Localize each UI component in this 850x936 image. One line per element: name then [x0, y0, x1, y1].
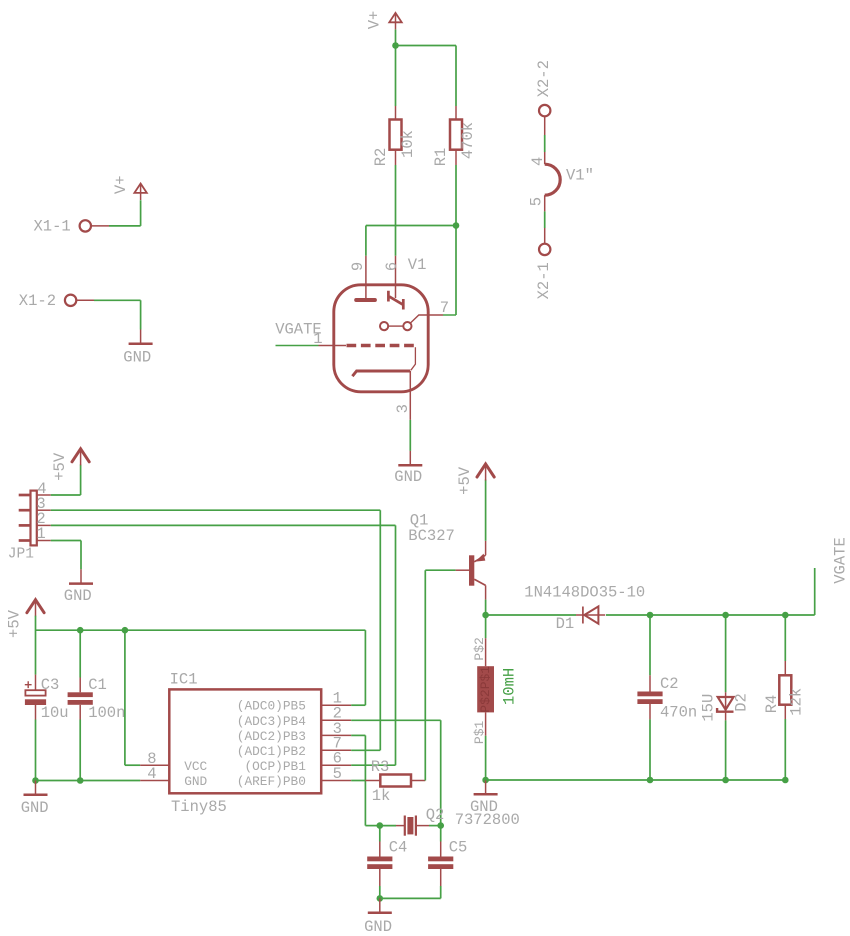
- svg-text:7: 7: [440, 299, 449, 317]
- svg-text:1: 1: [313, 330, 322, 348]
- capacitor C5: [440, 826, 442, 842]
- svg-text:1: 1: [36, 525, 45, 543]
- svg-text:1k: 1k: [372, 787, 391, 805]
- node junction crystal right/C5: [437, 822, 444, 829]
- svg-text:VCC: VCC: [184, 759, 207, 774]
- wire bottom rail: [486, 779, 786, 781]
- connector pad X1-2: [65, 295, 76, 306]
- tube heater element V1 (pins 4-5): [545, 164, 560, 195]
- svg-text:GND: GND: [184, 774, 207, 789]
- wire X1-1 to V+: [91, 225, 109, 227]
- svg-text:4: 4: [529, 157, 547, 166]
- IC U1 body IC1 Tiny85: [169, 689, 321, 793]
- wire R1 bottom down: [455, 165, 457, 226]
- tube V1 cathode: [352, 371, 410, 376]
- tube V1 pin 1 control grid: [276, 345, 319, 347]
- wire D1 to C2/D2/R4 rail: [606, 614, 650, 616]
- svg-text:5: 5: [333, 765, 342, 783]
- svg-text:10k: 10k: [399, 130, 417, 158]
- node junction R1/anode: [453, 222, 460, 229]
- header JP1 pin 4: [19, 494, 31, 497]
- svg-text:C4: C4: [389, 839, 408, 857]
- svg-text:+5V: +5V: [5, 609, 23, 638]
- svg-text:C1: C1: [88, 676, 107, 694]
- svg-text:+5V: +5V: [51, 452, 69, 481]
- node junction C4/C5/GND: [377, 895, 384, 902]
- tube V1 pin 7 internal connection: [380, 322, 388, 330]
- header JP1 pin 1: [19, 539, 31, 542]
- wire V+ to junction: [395, 30, 397, 46]
- svg-text:GND: GND: [123, 349, 151, 367]
- svg-text:100n: 100n: [88, 704, 125, 722]
- svg-text:C2: C2: [660, 675, 679, 693]
- header JP1 pin 2: [19, 524, 31, 527]
- tube V1 pin 9 anode: [365, 256, 367, 298]
- wire X2-2 to heater pin 4: [544, 116, 546, 135]
- svg-text:Q2: Q2: [426, 806, 445, 824]
- svg-text:1N4148DO35-10: 1N4148DO35-10: [524, 584, 645, 602]
- wire IC pin1 to +5V rail: [351, 704, 365, 706]
- wire R3 to Q1 base: [424, 570, 426, 780]
- svg-text:X1-2: X1-2: [19, 292, 56, 310]
- supply +5V (rail): [27, 600, 44, 613]
- svg-text:C5: C5: [449, 839, 468, 857]
- wire anode rail: [366, 225, 456, 227]
- wire top rail to D1: [486, 614, 576, 616]
- zener diode D2 15V: [725, 615, 727, 692]
- svg-text:GND: GND: [394, 468, 422, 486]
- wire rail to VGATE: [785, 614, 814, 616]
- node junction GND/C1: [77, 777, 84, 784]
- svg-text:+5V: +5V: [456, 466, 474, 495]
- node junction R4/GND rail: [782, 777, 789, 784]
- node junction GND/C3: [32, 777, 39, 784]
- wire X1-2 to GND: [77, 299, 95, 301]
- wire IC pin2 to crystal right: [351, 719, 441, 721]
- svg-text:P$2: P$2: [472, 637, 487, 660]
- node junction L1/GND rail: [482, 777, 489, 784]
- svg-text:V1: V1: [408, 256, 427, 274]
- diode D1 1N4148: [576, 614, 605, 616]
- capacitor C3: [35, 675, 37, 690]
- capacitor C4: [379, 826, 381, 842]
- wire +5V down to C3: [35, 616, 37, 675]
- svg-text:5: 5: [528, 197, 546, 206]
- resistor R2: [395, 106, 397, 120]
- svg-text:15U: 15U: [699, 694, 717, 722]
- svg-text:(OCP)PB1: (OCP)PB1: [244, 759, 306, 774]
- supply V+ (X1-1): [134, 184, 146, 193]
- svg-text:12k: 12k: [788, 688, 806, 716]
- wire JP1 pin1 to GND: [51, 540, 81, 542]
- tube V1 pin 3 lead: [409, 371, 411, 420]
- svg-text:X1-1: X1-1: [34, 217, 71, 235]
- ground GND (C3/C1): [35, 781, 37, 795]
- capacitor C2: [649, 615, 651, 675]
- svg-text:(ADC3)PB4: (ADC3)PB4: [237, 714, 306, 729]
- resistor R3: [365, 780, 380, 782]
- node junction rail/C2: [647, 612, 654, 619]
- ground GND (JP1): [80, 569, 82, 583]
- svg-text:470k: 470k: [459, 122, 477, 159]
- IC1 pin 1 PB5: [321, 704, 351, 706]
- connector pad X2-1: [539, 244, 550, 255]
- svg-text:VGATE: VGATE: [831, 537, 849, 584]
- connector pad X2-2: [539, 105, 550, 116]
- svg-text:10mH: 10mH: [500, 668, 518, 705]
- svg-text:(ADC0)PB5: (ADC0)PB5: [237, 699, 306, 714]
- wire R2 bottom to tube pin 6: [395, 165, 397, 256]
- header JP1 pin 3: [19, 509, 31, 512]
- wire C5 to C4 gnd: [380, 897, 441, 899]
- svg-text:V+: V+: [366, 11, 384, 30]
- svg-text:X2-1: X2-1: [535, 262, 553, 299]
- supply V+ (top): [389, 13, 401, 22]
- resistor R4 12k: [784, 615, 786, 661]
- wire VCC column: [124, 630, 126, 765]
- wire JP1 pin2 to IC pin6: [51, 524, 396, 526]
- IC1 pin 5 PB0: [321, 780, 351, 782]
- wire Q1 collector down: [485, 585, 487, 599]
- svg-text:D1: D1: [556, 615, 575, 633]
- svg-text:R4: R4: [763, 695, 781, 714]
- tube V1 suppressor tie: [411, 347, 416, 370]
- wire junction down to R2: [395, 46, 397, 107]
- wire R1 column to tube pin 7: [455, 226, 457, 316]
- svg-text:JP1: JP1: [8, 546, 34, 562]
- wire GND rail left: [36, 780, 141, 782]
- node junction collector/L1/D1: [482, 612, 489, 619]
- wire IC pin6: [351, 764, 395, 766]
- svg-text:V+: V+: [112, 175, 130, 194]
- tube V1 envelope: [334, 285, 428, 392]
- svg-text:IC1: IC1: [170, 671, 198, 689]
- node junction rail/D2: [722, 612, 729, 619]
- wire junction to R1 top: [396, 45, 457, 47]
- wire JP1 pin4 to +5V: [51, 494, 81, 496]
- node junction C2/GND rail: [647, 777, 654, 784]
- wire +5V rail: [36, 629, 366, 631]
- node junction crystal left/C4: [377, 822, 384, 829]
- node junction D2/GND rail: [722, 777, 729, 784]
- inductor L1 10mH: [485, 615, 487, 638]
- svg-text:GND: GND: [64, 587, 92, 605]
- svg-text:(ADC1)PB2: (ADC1)PB2: [237, 744, 306, 759]
- svg-text:R1: R1: [432, 148, 450, 167]
- svg-text:X2-2: X2-2: [535, 60, 553, 97]
- IC1 pin 4 GND: [140, 780, 169, 782]
- svg-text:D2: D2: [733, 693, 751, 712]
- node junction V+/R2/R1: [392, 42, 399, 49]
- IC1 pin 2 PB4: [321, 719, 351, 721]
- svg-text:4: 4: [147, 765, 156, 783]
- node junction rail/VCC: [122, 627, 129, 634]
- IC1 pin 7 PB2: [321, 749, 351, 751]
- wire IC pin7: [351, 749, 380, 751]
- svg-text:Tiny85: Tiny85: [171, 798, 227, 816]
- ground GND (tube): [409, 451, 411, 465]
- transistor Q1 BC327: [456, 569, 469, 571]
- IC1 pin 3 PB3: [321, 734, 351, 736]
- svg-text:10u: 10u: [41, 704, 69, 722]
- wire JP1 pin3 to IC pin7: [51, 509, 381, 511]
- capacitor C1: [79, 630, 81, 677]
- wire IC pin3 to crystal left: [351, 734, 365, 736]
- ground GND (L1): [485, 780, 487, 794]
- svg-text:470n: 470n: [660, 704, 697, 722]
- node junction rail/C1: [77, 627, 84, 634]
- supply +5V (JP1): [72, 449, 89, 462]
- supply +5V (Q1): [477, 464, 494, 477]
- IC1 pin 6 PB1: [321, 764, 351, 766]
- svg-text:3: 3: [394, 404, 412, 413]
- node junction rail/R4: [782, 612, 789, 619]
- IC1 pin 8 VCC: [140, 764, 169, 766]
- svg-text:GND: GND: [21, 799, 49, 817]
- tube V1 pin 6 heater hook: [395, 256, 397, 298]
- connector pad X1-1: [80, 220, 91, 231]
- ground GND (C4/C5): [379, 898, 381, 912]
- svg-text:P$2P$1: P$2P$1: [478, 666, 493, 713]
- svg-text:(ADC2)PB3: (ADC2)PB3: [237, 729, 306, 744]
- svg-text:BC327: BC327: [408, 527, 455, 545]
- svg-text:6: 6: [383, 262, 401, 271]
- wire Q1 emitter to +5V: [485, 541, 487, 555]
- svg-text:7372800: 7372800: [455, 811, 520, 829]
- wire IC pin5 to R3: [351, 780, 365, 782]
- crystal Q2 7372800: [380, 825, 396, 827]
- svg-text:GND: GND: [364, 918, 392, 936]
- ground GND (X1-2): [140, 330, 142, 344]
- resistor R1: [455, 106, 457, 120]
- svg-text:R2: R2: [372, 148, 390, 167]
- svg-text:V1": V1": [566, 167, 594, 185]
- svg-text:P$1: P$1: [472, 721, 487, 745]
- header JP1 body: [31, 491, 37, 546]
- svg-text:9: 9: [349, 262, 367, 271]
- svg-text:(AREF)PB0: (AREF)PB0: [237, 774, 306, 789]
- svg-text:C3: C3: [41, 676, 60, 694]
- svg-text:R3: R3: [371, 758, 390, 776]
